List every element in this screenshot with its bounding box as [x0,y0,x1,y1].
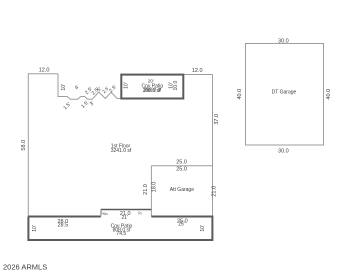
svg-text:208.0 sf: 208.0 sf [143,88,161,94]
covered patio bottom strip thick outline [28,217,212,241]
svg-text:40.0: 40.0 [326,89,332,100]
wire: Att Garage left boundary [150,166,152,217]
svg-text:3241.0 sf: 3241.0 sf [111,148,132,154]
svg-text:21': 21' [121,215,128,221]
wire: zigzag top edge of 1st floor [58,74,121,100]
svg-text:DT Garage: DT Garage [272,90,297,96]
svg-text:10': 10' [200,225,206,232]
svg-text:25.0: 25.0 [176,159,187,165]
wire: 1st floor outline top-left segment and left edge [28,74,58,217]
svg-text:37.0: 37.0 [214,114,220,125]
wire: Att Garage top boundary [151,165,212,167]
svg-text:10.0: 10.0 [173,81,179,91]
wire: raised patio top line [101,209,152,211]
svg-text:30.0: 30.0 [278,39,289,45]
svg-text:12.0: 12.0 [192,68,203,74]
wire: bottom patio step thin lines [100,210,102,217]
svg-text:25.0: 25.0 [176,167,187,173]
svg-text:25': 25' [178,222,185,228]
svg-text:Att Garage: Att Garage [170,187,194,193]
svg-text:10': 10' [32,225,38,232]
svg-text:10': 10' [124,82,130,89]
svg-text:10': 10' [61,84,67,91]
svg-text:21.0: 21.0 [143,184,149,195]
svg-text:5': 5' [104,212,109,216]
svg-text:40.0: 40.0 [237,89,243,100]
svg-text:18.0: 18.0 [151,182,157,193]
svg-text:21.0: 21.0 [211,186,217,197]
DT Garage box [246,44,324,146]
wire: top edge right segment from patio box to right edge [183,74,212,76]
svg-text:74.5: 74.5 [116,231,126,237]
svg-text:3': 3' [138,211,143,215]
wire: right edge of house [212,75,214,217]
svg-text:2026 ARMLS: 2026 ARMLS [3,262,47,271]
wire: strip top-left thick segment [28,216,101,218]
svg-text:58.0: 58.0 [21,140,27,151]
svg-text:12.0: 12.0 [39,68,50,74]
svg-text:28.5: 28.5 [57,222,68,228]
cov patio top box (thick) [121,75,183,99]
svg-text:30.0: 30.0 [278,149,289,155]
